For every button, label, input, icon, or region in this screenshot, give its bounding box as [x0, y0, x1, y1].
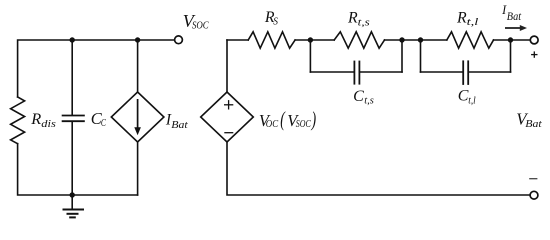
- svg-text:C: C: [101, 118, 106, 129]
- svg-text:S: S: [273, 17, 278, 28]
- svg-text:C: C: [353, 88, 364, 105]
- svg-text:t,s: t,s: [358, 16, 370, 28]
- svg-text:): ): [311, 107, 316, 131]
- svg-text:t,s: t,s: [364, 94, 374, 106]
- svg-text:R: R: [456, 9, 467, 26]
- svg-text:t,l: t,l: [467, 16, 479, 28]
- svg-text:(: (: [280, 107, 286, 131]
- svg-text:OC: OC: [266, 118, 279, 130]
- svg-text:R: R: [30, 109, 41, 128]
- svg-text:dis: dis: [41, 118, 56, 130]
- svg-text:Bat: Bat: [525, 118, 542, 130]
- svg-text:R: R: [347, 9, 358, 26]
- svg-text:SOC: SOC: [192, 20, 209, 32]
- svg-text:t,l: t,l: [468, 94, 475, 106]
- svg-text:Bat: Bat: [507, 11, 522, 23]
- svg-text:C: C: [458, 88, 469, 105]
- svg-text:SOC: SOC: [296, 118, 311, 130]
- svg-text:Bat: Bat: [171, 119, 188, 131]
